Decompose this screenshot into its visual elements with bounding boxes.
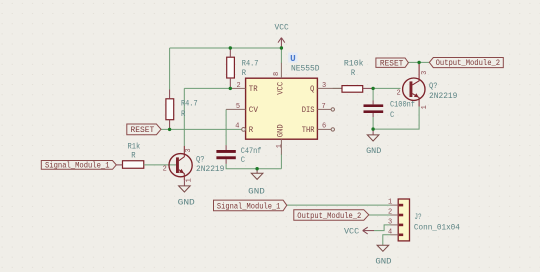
pin 1 GND line (280, 139, 282, 154)
svg-text:C: C (241, 156, 245, 165)
wire VCC rail (170, 47, 282, 49)
wire CV to C1 (225, 109, 227, 145)
svg-text:3: 3 (322, 82, 326, 90)
svg-text:3: 3 (185, 148, 193, 152)
svg-text:1: 1 (421, 105, 429, 109)
junction at GND rail under IC (255, 167, 258, 170)
label Signal_Module_1 left (41, 161, 116, 170)
wire R10k to Q2 base (373, 87, 400, 89)
svg-text:2: 2 (163, 166, 167, 174)
svg-text:GND: GND (375, 256, 391, 266)
svg-text:1: 1 (186, 178, 194, 182)
pin 6 THR line (317, 128, 331, 130)
junction at R2 bottom / RESET net (168, 128, 171, 131)
svg-text:7: 7 (322, 103, 326, 111)
svg-text:1: 1 (276, 144, 284, 148)
svg-text:Conn_01x04: Conn_01x04 (414, 223, 460, 232)
junction at C2 bottom / GND (371, 127, 374, 130)
svg-text:2N2219: 2N2219 (429, 92, 458, 101)
wire C2 to gnd junction (372, 117, 374, 129)
svg-text:TR: TR (249, 86, 258, 94)
resistor R4 (R10k) (342, 86, 363, 93)
svg-text:Output_Module_2: Output_Module_2 (436, 58, 501, 68)
svg-text:R: R (131, 151, 135, 160)
svg-text:C100nf: C100nf (390, 101, 415, 110)
svg-text:NE555D: NE555D (291, 64, 320, 73)
svg-text:C: C (390, 111, 394, 120)
junction at Q2 collector node (417, 61, 420, 64)
label RESET left (127, 124, 161, 135)
svg-text:C47nf: C47nf (241, 147, 262, 156)
svg-text:VCC: VCC (344, 227, 359, 236)
svg-text:RESET: RESET (131, 125, 155, 135)
svg-text:Q?: Q? (429, 82, 438, 91)
label Output_Module_2 top (429, 58, 503, 68)
svg-text:1: 1 (388, 199, 392, 207)
wire RESET2 to node (408, 61, 429, 63)
wire Q2 emitter to gnd junction (373, 107, 419, 130)
wire TR to Q1 collector (183, 88, 185, 146)
svg-text:Signal_Module_1: Signal_Module_1 (217, 201, 281, 211)
wire rail to R2 (169, 48, 171, 90)
svg-text:R: R (351, 69, 355, 78)
svg-text:J?: J? (414, 213, 421, 222)
svg-text:R: R (242, 69, 246, 78)
capacitor C1 (C47nf) (216, 150, 235, 153)
svg-text:GND: GND (178, 197, 195, 207)
junction at VCC symbol / pin 8 (280, 46, 283, 49)
junction at R1 bottom / TR net (229, 87, 232, 90)
svg-text:Q?: Q? (196, 156, 205, 165)
IC reference U highlight (288, 53, 297, 63)
svg-text:Signal_Module_1: Signal_Module_1 (45, 161, 110, 171)
wire VCC to J pin3 (374, 225, 391, 231)
wire VCC to pin8 (280, 48, 282, 63)
svg-text:R: R (181, 110, 185, 119)
svg-text:VCC: VCC (277, 82, 285, 95)
wire junction to C2 (372, 88, 374, 100)
svg-text:R4.7: R4.7 (181, 99, 198, 108)
transistor Q1 (2N2219) (169, 154, 192, 177)
ground under C2 (372, 129, 374, 135)
op IC NE555 body U1 (246, 78, 318, 139)
resistor R1 (R4.7 top) (227, 57, 235, 78)
svg-text:6: 6 (322, 123, 326, 131)
svg-text:4: 4 (388, 228, 392, 236)
svg-text:3: 3 (388, 218, 392, 226)
ground under Q1 (183, 180, 185, 186)
svg-text:4: 4 (235, 123, 239, 131)
pin 5 CV line (226, 108, 246, 110)
svg-text:GND: GND (277, 124, 285, 137)
wire Output2 to J pin2 (369, 214, 391, 216)
wire TR net (184, 87, 231, 89)
svg-text:8: 8 (273, 72, 281, 76)
junction at R1 top / VCC rail (229, 46, 232, 49)
label RESET right (376, 58, 409, 67)
svg-text:GND: GND (366, 146, 381, 156)
pin 7 DIS line (317, 108, 331, 110)
resistor R2 (R4.7 left) (166, 99, 174, 120)
pin 4 R line with bubble (242, 127, 246, 131)
wire C1 to GND rail (226, 164, 281, 169)
ground under IC (256, 169, 258, 174)
svg-text:VCC: VCC (275, 24, 289, 33)
svg-text:2: 2 (397, 90, 401, 98)
resistor R3 (R1k) (123, 161, 144, 169)
connector J1 Conn_01x04 (398, 199, 409, 241)
wire RESET net (161, 128, 242, 130)
transistor Q2 (2N2219) (403, 78, 425, 100)
svg-text:Q: Q (310, 86, 315, 94)
svg-text:CV: CV (249, 107, 259, 115)
svg-text:2: 2 (237, 82, 241, 90)
wire Q out to R10k (333, 87, 342, 89)
wire J pin4 to GND (383, 235, 391, 245)
capacitor C2 (C100nf) (364, 104, 384, 107)
power VCC top (280, 38, 282, 48)
pin 8 VCC line (280, 63, 282, 78)
ground under J pin4 (377, 245, 389, 251)
svg-text:R: R (249, 127, 254, 135)
pin 3 Q line (317, 87, 342, 89)
svg-text:U: U (290, 54, 296, 64)
junction at R10k / C2 / Q2 base (371, 87, 374, 90)
svg-text:RESET: RESET (380, 58, 404, 68)
svg-text:R10k: R10k (344, 59, 364, 68)
svg-text:R1k: R1k (128, 142, 141, 151)
svg-text:THR: THR (302, 127, 315, 135)
svg-text:3: 3 (421, 71, 429, 75)
label Signal_Module_1 bottom (214, 200, 287, 211)
svg-text:R4.7: R4.7 (242, 59, 259, 68)
svg-text:GND: GND (248, 187, 265, 197)
svg-text:DIS: DIS (302, 107, 315, 115)
pin 2 TR line (230, 87, 245, 89)
svg-text:Output_Module_2: Output_Module_2 (297, 211, 361, 221)
svg-text:5: 5 (236, 103, 240, 111)
power VCC right (rotated left) (363, 230, 374, 232)
wire Signal to J pin1 (287, 204, 391, 206)
svg-text:2N2219: 2N2219 (196, 165, 225, 174)
wire IC pin1 down (280, 154, 282, 169)
label Output_Module_2 bottom (294, 210, 369, 221)
svg-text:2: 2 (388, 209, 392, 217)
